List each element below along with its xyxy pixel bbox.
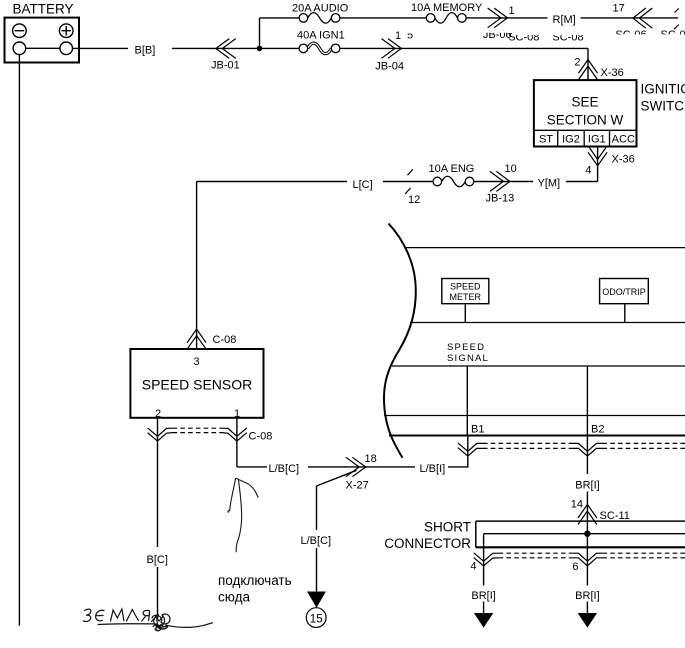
svg-text:JB-04: JB-04	[375, 60, 404, 72]
fuse 10A MEMORY	[411, 2, 483, 23]
svg-text:SIGNAL: SIGNAL	[447, 353, 489, 364]
svg-text:2: 2	[574, 57, 580, 69]
fuse 40A IGN1 fusible link	[297, 30, 345, 54]
svg-text:3: 3	[193, 356, 199, 368]
fuse 10A ENG	[429, 163, 475, 187]
connector pin6 chevron	[572, 553, 602, 566]
hand-drawn ZEMLYA scribble	[83, 609, 212, 631]
whiteout remnant ticks right edge	[674, 8, 679, 29]
wire L/B row y467	[237, 466, 468, 468]
svg-text:15: 15	[310, 613, 323, 625]
wire L[C] down to sensor	[196, 182, 198, 350]
wire L/B[C] vertical to ground 15	[316, 486, 318, 592]
svg-text:B[C]: B[C]	[147, 554, 168, 566]
svg-text:1: 1	[509, 5, 515, 17]
connector JB-06	[488, 8, 508, 28]
svg-text:L/B[C]: L/B[C]	[301, 535, 332, 547]
svg-text:C-08: C-08	[213, 334, 237, 346]
svg-text:X-36: X-36	[601, 67, 624, 79]
wire B2 / BR[I] / SC-11	[586, 366, 588, 613]
svg-text:C-08: C-08	[249, 431, 273, 443]
speed meter box	[442, 279, 489, 304]
svg-text:SWITCH: SWITCH	[641, 99, 685, 114]
svg-text:METER: METER	[450, 292, 482, 302]
svg-text:ACC: ACC	[612, 134, 635, 146]
svg-text:10A ENG: 10A ENG	[429, 163, 475, 175]
svg-text:CONNECTOR: CONNECTOR	[384, 536, 471, 551]
connector pin4 chevron	[474, 553, 499, 566]
cluster bus line A	[404, 247, 685, 249]
svg-text:40A IGN1: 40A IGN1	[297, 30, 345, 42]
connector SC-11	[578, 505, 597, 525]
wire B1 stub	[467, 436, 469, 468]
wire junction branch vertical	[259, 18, 261, 49]
svg-text:X-27: X-27	[346, 480, 369, 492]
junction dot in short connector	[584, 531, 590, 537]
cluster bus line C	[392, 365, 685, 367]
short connector box	[476, 521, 685, 547]
svg-text:IGNITION: IGNITION	[641, 82, 685, 97]
connector X-27	[346, 457, 366, 476]
wire top fuse row y18	[260, 17, 679, 19]
svg-text:сюда: сюда	[218, 590, 250, 605]
svg-text:R[M]: R[M]	[553, 14, 576, 26]
svg-text:B1: B1	[471, 424, 484, 436]
wire short connector pin4	[483, 534, 485, 613]
svg-text:X-36: X-36	[612, 154, 635, 166]
ignition switch box U	[534, 80, 637, 146]
svg-text:JB-01: JB-01	[211, 60, 240, 72]
ground arrow pin6	[578, 613, 597, 628]
connector dashed lines pin4-pin6	[499, 553, 685, 558]
svg-text:Y[M]: Y[M]	[538, 178, 561, 190]
wire short connector bus	[484, 533, 685, 535]
svg-text:B2: B2	[591, 424, 604, 436]
svg-text:L/B[I]: L/B[I]	[420, 463, 446, 475]
svg-text:BR[I]: BR[I]	[471, 590, 495, 602]
svg-text:1: 1	[395, 30, 401, 42]
battery B	[5, 2, 80, 63]
svg-text:6: 6	[572, 561, 578, 573]
cluster bottom line E	[389, 435, 685, 437]
svg-text:10A MEMORY: 10A MEMORY	[411, 2, 483, 14]
svg-text:SC-11: SC-11	[600, 510, 630, 522]
svg-text:BR[I]: BR[I]	[575, 480, 599, 492]
svg-text:18: 18	[365, 453, 377, 465]
svg-text:4: 4	[585, 165, 591, 177]
speed sensor box	[130, 349, 263, 420]
wire B[B] row y48	[73, 47, 589, 49]
connector JB-01	[216, 39, 236, 59]
connector dashed lines B1-B2	[483, 443, 685, 448]
svg-text:ODO/TRIP: ODO/TRIP	[602, 287, 646, 297]
svg-text:12: 12	[408, 194, 420, 206]
hand-drawn arrow annotation	[228, 478, 258, 552]
svg-text:SHORT: SHORT	[424, 520, 471, 535]
connector JB-04	[382, 39, 402, 59]
svg-text:14: 14	[571, 499, 583, 511]
wire odo/trip stub	[624, 304, 626, 323]
svg-text:10: 10	[505, 163, 517, 175]
svg-text:ST: ST	[539, 134, 553, 146]
svg-text:L/B[C]: L/B[C]	[269, 463, 300, 475]
instrument cluster outline curve	[384, 224, 416, 458]
svg-text:SECTION W: SECTION W	[547, 113, 624, 128]
connector 12 tick marks	[405, 169, 413, 194]
cluster bus line D	[384, 415, 685, 417]
svg-text:SPEED SENSOR: SPEED SENSOR	[142, 377, 252, 393]
connector JB-13	[490, 171, 510, 191]
svg-text:1: 1	[234, 408, 240, 420]
svg-text:IG1: IG1	[588, 134, 606, 146]
svg-text:B[B]: B[B]	[135, 45, 156, 57]
connector C-08 pin3	[187, 329, 206, 349]
wire L[C]/Y[M] row y181	[197, 181, 598, 183]
connector X-36 pin4	[588, 146, 607, 166]
connector SC-06 17 chevron	[633, 8, 652, 28]
connector B1 chevron	[458, 443, 483, 456]
ground arrow 15	[306, 592, 326, 628]
odo/trip box	[600, 279, 649, 304]
wire battery ground vertical	[18, 55, 20, 626]
svg-text:2: 2	[155, 408, 161, 420]
svg-text:20A AUDIO: 20A AUDIO	[292, 3, 349, 15]
svg-text:BATTERY: BATTERY	[13, 2, 74, 17]
svg-text:L[C]: L[C]	[353, 179, 373, 191]
fuse 20A AUDIO	[292, 3, 349, 24]
wire sensor pin1 down	[236, 418, 238, 467]
wire diagonal X-27 to L/B[C]	[317, 470, 357, 486]
svg-text:IG2: IG2	[562, 134, 580, 146]
svg-text:SPEED: SPEED	[450, 282, 481, 292]
wire B1 cluster vertical	[466, 366, 468, 436]
wire sensor pin2 B[C]	[157, 418, 159, 620]
ground arrow pin4	[474, 613, 493, 628]
connector C-08 pins 2 and 1 below sensor	[148, 428, 247, 441]
wire ignition IG1 down vertical	[597, 146, 599, 182]
svg-text:4: 4	[470, 561, 476, 573]
svg-text:подключать: подключать	[218, 573, 292, 588]
cluster bus line B	[410, 322, 685, 324]
wire to ignition pin2 vertical	[587, 48, 589, 80]
svg-text:SPEED: SPEED	[447, 342, 485, 353]
wire speed meter stub	[464, 304, 466, 323]
connector X-36 pin2	[579, 60, 598, 80]
svg-text:JB-13: JB-13	[486, 193, 515, 205]
junction dot node	[257, 46, 263, 52]
connector B2 chevron	[572, 443, 602, 456]
svg-text:17: 17	[613, 3, 625, 15]
svg-text:SEE: SEE	[571, 95, 598, 110]
svg-text:BR[I]: BR[I]	[575, 590, 599, 602]
